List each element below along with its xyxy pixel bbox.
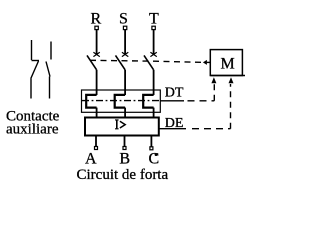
DT heater element phase 2 (115, 95, 125, 108)
svg-text:DT: DT (165, 85, 184, 100)
wire R down to contact (96, 30, 98, 55)
breaker pole 2 blade (116, 55, 126, 69)
output stub B (124, 136, 126, 147)
wire pole 2 to DT (124, 70, 126, 95)
DT mechanism dash-dot line (82, 100, 160, 102)
mechanical linkage dashed line to M (90, 60, 204, 62)
DT link arrow into M bottom (211, 77, 216, 83)
label DE (165, 116, 184, 131)
label DT (165, 85, 184, 100)
electromagnetic relay I> box (85, 118, 159, 136)
auxiliary contact NC (left) (31, 40, 39, 99)
svg-text:B: B (119, 151, 130, 168)
terminal T (152, 26, 155, 29)
breaker pole 3 contact x mark (150, 52, 156, 56)
wire S down to contact (124, 30, 126, 55)
node A label (85, 151, 97, 168)
node R label (91, 11, 102, 28)
svg-text:R: R (91, 11, 102, 28)
breaker pole 1 blade (87, 55, 97, 69)
wire pole 3 to DT (153, 70, 155, 95)
svg-text:A: A (85, 151, 97, 168)
auxiliary contact NO (right) (46, 42, 51, 99)
svg-text:T: T (149, 11, 159, 28)
wire pole 1 DT to I> box (96, 108, 98, 118)
wire T down to contact (153, 30, 155, 55)
node T label (149, 11, 159, 28)
node C label (149, 151, 160, 168)
wire pole 1 to DT (96, 70, 98, 95)
label Contacte auxiliare (6, 109, 60, 138)
wire pole 3 DT to I> box (153, 108, 155, 118)
svg-text:S: S (119, 11, 128, 28)
motor M box (210, 50, 245, 76)
label I> (115, 120, 125, 129)
terminal A (95, 147, 98, 150)
breaker pole 1 contact x mark (93, 52, 99, 56)
DT heater element phase 1 (86, 95, 96, 108)
svg-text:M: M (221, 56, 235, 73)
node B label (119, 151, 130, 168)
terminal S (123, 26, 126, 29)
DT trip link dashed to M (160, 84, 214, 101)
svg-text:auxiliare: auxiliare (6, 122, 59, 138)
node S label (119, 11, 128, 28)
svg-text:Circuit de forta: Circuit de forta (77, 167, 169, 183)
svg-text:C: C (149, 151, 160, 168)
output stub C (150, 136, 152, 147)
DE link arrow into M bottom (229, 77, 234, 83)
arrow into M left side (203, 60, 210, 65)
output stub A (95, 136, 97, 147)
wire pole 2 DT to I> box (124, 108, 126, 118)
terminal B (123, 147, 126, 150)
DT heater element phase 3 (143, 95, 153, 108)
caption Circuit de forta (77, 167, 169, 183)
DE trip link dashed to M (159, 84, 231, 129)
terminal C (150, 147, 153, 150)
motor M label (221, 56, 235, 73)
thermal relay DT box (82, 90, 161, 112)
breaker pole 3 blade (144, 55, 154, 69)
terminal R (95, 26, 98, 29)
breaker pole 2 contact x mark (122, 52, 128, 56)
